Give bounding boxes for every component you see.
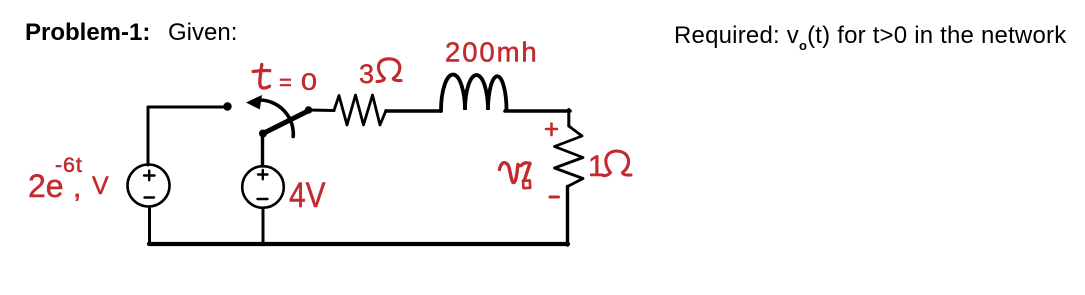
wire V2 top stub to switch pivot: [261, 134, 264, 166]
svg-text:=: =: [279, 70, 292, 95]
wire L1 to right corner: [505, 109, 570, 113]
svg-text:V: V: [92, 172, 109, 200]
inductor L1 200mh humps: [441, 75, 507, 111]
svg-text:0: 0: [301, 69, 317, 96]
switch SW1 arrow head: [246, 95, 262, 110]
V2 minus sign: [258, 198, 268, 200]
source V2 circle 4V: [242, 166, 284, 208]
source V1 circle 2e^-6t V: [128, 165, 170, 207]
switch SW1 blade: [263, 111, 309, 134]
label plus of vo: [546, 124, 557, 136]
svg-text:3: 3: [359, 59, 374, 89]
svg-text:Problem-1:: Problem-1:: [25, 19, 150, 46]
svg-text:Given:: Given:: [168, 19, 237, 46]
V1 plus sign: [144, 171, 155, 181]
V2 plus sign: [258, 170, 268, 179]
label minus of vo: [550, 196, 559, 199]
node left switch contact dot: [223, 102, 231, 110]
switch SW1 motion arc: [260, 100, 294, 137]
wire top-left horizontal: [148, 106, 224, 109]
wire right vertical bottom: [566, 187, 569, 246]
red handwritten labels: [28, 37, 605, 216]
switch SW1 pivot dot: [259, 130, 267, 138]
wire left vertical: [147, 107, 150, 165]
resistor R1 3ohm zigzag: [334, 95, 386, 125]
svg-text:1: 1: [588, 150, 605, 183]
wire bottom: [149, 242, 568, 246]
wire V2 bottom stub: [262, 208, 265, 243]
label vo subscript o: [523, 180, 530, 188]
V1 minus sign: [145, 196, 155, 198]
wire right vertical top: [567, 110, 570, 127]
wire switch to R1: [309, 109, 334, 113]
label omega of 1ohm: [603, 151, 631, 176]
label omega of 3ohm: [377, 59, 401, 82]
wire R1 to L1: [386, 109, 441, 113]
svg-text:200mh: 200mh: [445, 37, 539, 68]
resistor R2 1ohm vertical zigzag: [555, 126, 584, 187]
label t of t=0: [253, 65, 270, 89]
svg-text:Required: vo(t) for t>0 in the: Required: vo(t) for t>0 in the network: [674, 22, 1067, 53]
label vo script v: [500, 163, 531, 183]
switch SW1 blade end dot: [305, 106, 313, 114]
wire V1 bottom stub: [148, 207, 151, 244]
svg-text:,: ,: [73, 171, 81, 204]
svg-text:4V: 4V: [289, 176, 326, 215]
